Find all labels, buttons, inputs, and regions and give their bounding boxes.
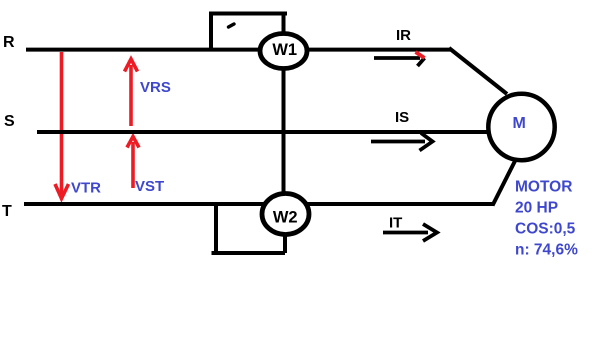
wire W2 to box bottom — [283, 234, 287, 253]
svg-text:VTR: VTR — [71, 180, 101, 197]
voltage arrow VRS (red) — [125, 59, 138, 126]
wattmeter W2 — [262, 194, 309, 235]
wire vertical connector W1-W2 — [282, 14, 286, 195]
svg-text:R: R — [3, 34, 15, 51]
W1 voltage-coil box — [211, 14, 287, 51]
svg-text:T: T — [2, 203, 12, 220]
svg-text:W1: W1 — [272, 41, 297, 59]
current arrow IT — [383, 224, 437, 241]
svg-text:IS: IS — [395, 109, 409, 126]
svg-text:S: S — [4, 113, 15, 130]
svg-text:VST: VST — [135, 178, 164, 195]
wire R diagonal to motor — [449, 48, 507, 94]
wattmeter W1 — [260, 34, 307, 69]
W2 voltage-coil box — [212, 203, 286, 253]
motor M — [488, 94, 554, 160]
svg-text:COS:0,5: COS:0,5 — [515, 221, 576, 238]
svg-text:W2: W2 — [273, 208, 298, 226]
motor spec text — [515, 179, 578, 259]
voltage arrow VTR (red) — [55, 52, 69, 199]
wire phase R — [26, 48, 451, 52]
wire T diagonal to motor — [493, 159, 517, 206]
current arrow IS — [371, 133, 433, 151]
current arrow IR red barb — [416, 52, 425, 58]
current arrow IR — [374, 58, 425, 66]
svg-text:VRS: VRS — [140, 79, 171, 96]
pen mark inside W1 box — [229, 24, 235, 27]
svg-text:IR: IR — [396, 27, 411, 44]
svg-text:n: 74,6%: n: 74,6% — [515, 242, 578, 259]
wire phase T — [24, 202, 494, 206]
svg-text:M: M — [513, 115, 526, 132]
svg-text:MOTOR: MOTOR — [515, 179, 572, 196]
wire phase S — [37, 130, 488, 134]
svg-text:20 HP: 20 HP — [515, 200, 558, 217]
voltage arrow VST (red) — [127, 137, 139, 189]
svg-text:IT: IT — [389, 215, 402, 232]
